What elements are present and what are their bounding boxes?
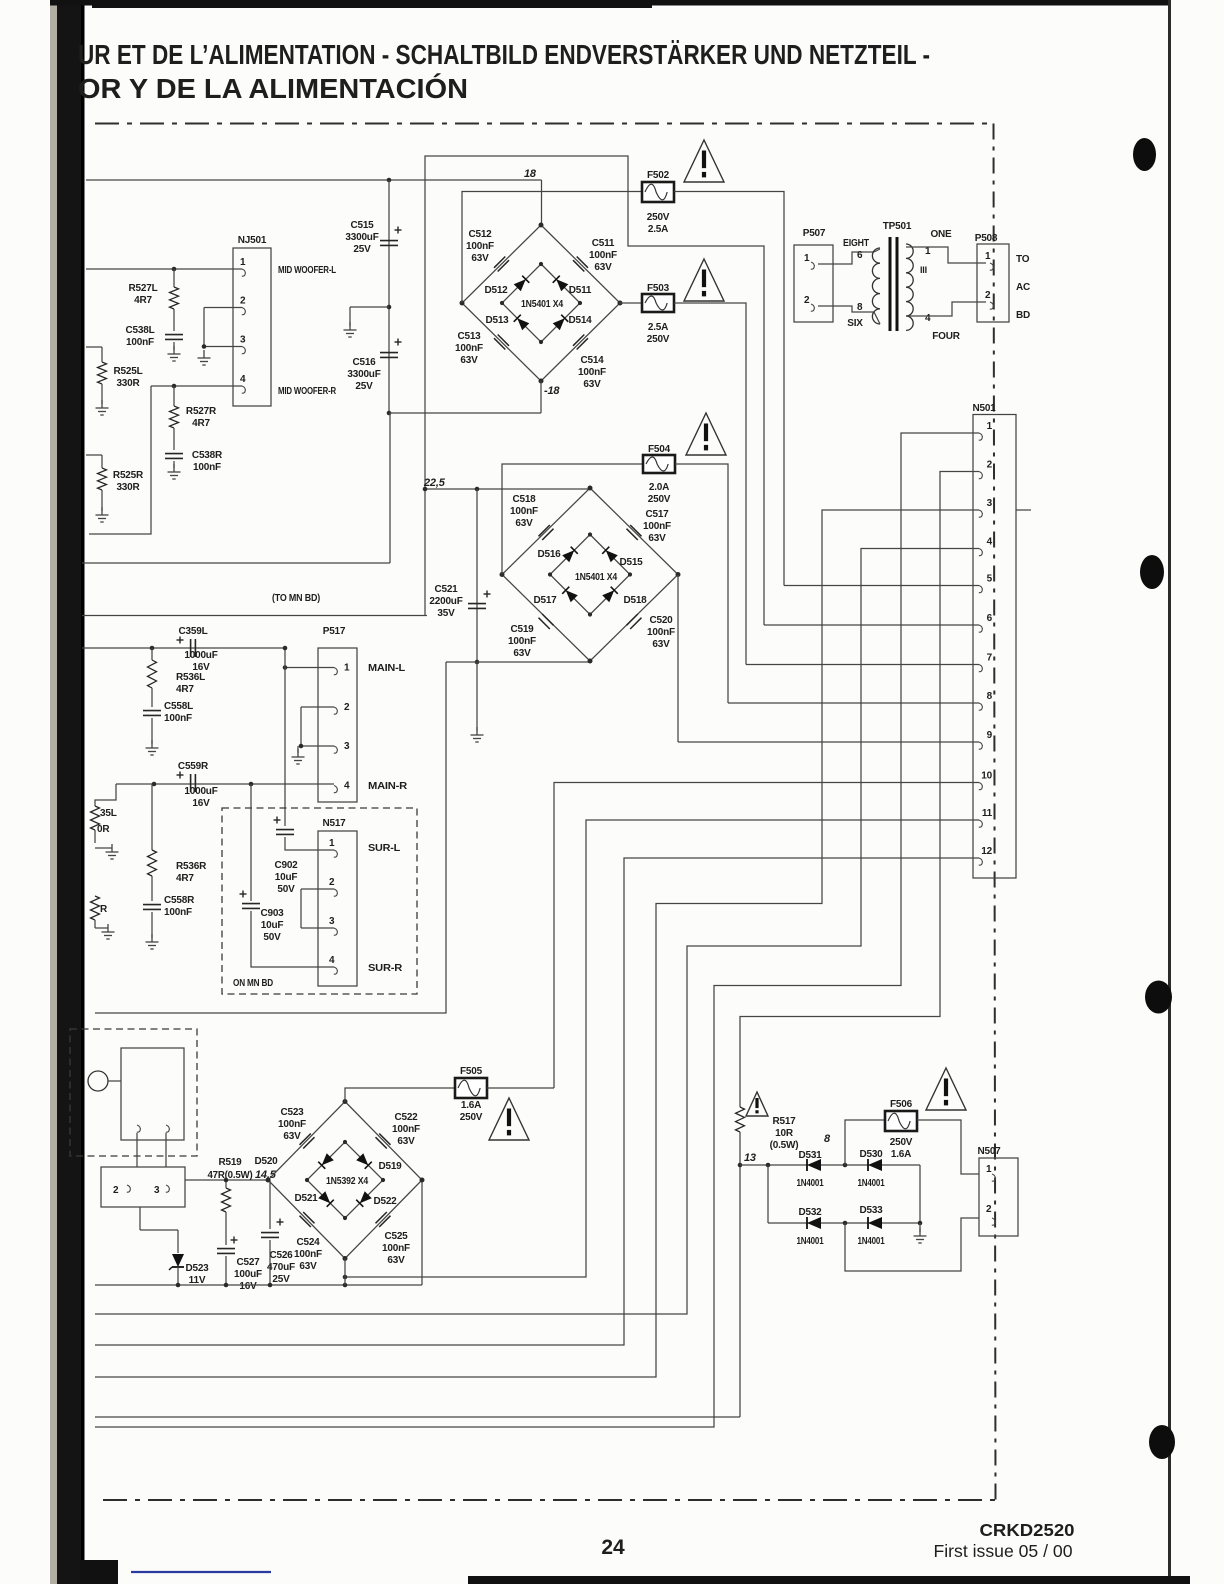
svg-text:2: 2 [113, 1185, 119, 1196]
wire N501 pin3 right stub [1016, 509, 1031, 511]
svg-text:EIGHT: EIGHT [843, 238, 869, 249]
svg-text:50V: 50V [263, 932, 281, 943]
capacitor C538L [165, 335, 183, 340]
wire C538L bottom lead [173, 342, 175, 350]
svg-text:63V: 63V [283, 1131, 301, 1142]
svg-text:100nF: 100nF [466, 241, 494, 252]
svg-text:100nF: 100nF [392, 1124, 420, 1135]
capacitor C522 [376, 1134, 391, 1149]
wire R525L top lead [101, 347, 103, 362]
wire NJ501 jumper 2-3 [203, 308, 205, 347]
svg-text:D511: D511 [569, 285, 592, 296]
svg-text:1000uF: 1000uF [184, 650, 217, 661]
connector P517 [318, 648, 357, 802]
node R527R tap [172, 384, 177, 389]
resistor R525L [98, 362, 107, 384]
svg-text:100uF: 100uF [234, 1269, 262, 1280]
capacitor C525 [376, 1212, 391, 1227]
resistor R535L [91, 806, 100, 830]
wire N501 pin4 net [95, 549, 973, 1315]
capacitor C517 [627, 525, 642, 540]
capacitor C559R [191, 774, 196, 792]
svg-text:2: 2 [987, 460, 993, 471]
wire R525R top lead [101, 455, 103, 468]
node C903 tap [249, 782, 254, 787]
svg-text:C524: C524 [296, 1237, 320, 1248]
wire connector to bridge3 [185, 1179, 269, 1181]
diode D520 [318, 1153, 334, 1169]
wire P507 pin1 to winding [818, 252, 874, 264]
svg-text:R527L: R527L [128, 283, 157, 294]
svg-text:35V: 35V [437, 608, 455, 619]
node C515/C516 junction [387, 305, 392, 310]
svg-text:8: 8 [857, 302, 863, 313]
svg-text:P507: P507 [803, 228, 826, 239]
svg-text:3300uF: 3300uF [347, 369, 380, 380]
wire N501 pin9 lead [678, 741, 973, 743]
svg-text:D517: D517 [533, 595, 557, 606]
resistor R517 [736, 1107, 745, 1132]
wire diode row upper [740, 1164, 920, 1166]
svg-text:C523: C523 [280, 1107, 304, 1118]
capacitor C903 10uF 50V [242, 904, 260, 909]
wire F506 out to N507 pin1 [917, 1120, 979, 1174]
svg-text:P508: P508 [975, 233, 998, 244]
wire -18 west drop [389, 413, 391, 563]
wire switch pin b drop [165, 1133, 167, 1167]
wire N501 pin12 net [95, 858, 973, 1345]
wire switch pin a drop [136, 1133, 138, 1167]
wire bridge1 left to F502 [462, 192, 642, 304]
capacitor C511 [573, 257, 588, 272]
svg-text:C522: C522 [394, 1112, 418, 1123]
capacitor C558R [143, 905, 161, 910]
svg-text:250V: 250V [648, 494, 671, 505]
pin a of switch [137, 1125, 141, 1132]
svg-text:63V: 63V [583, 379, 601, 390]
svg-text:N507: N507 [977, 1146, 1001, 1157]
svg-text:D531: D531 [798, 1150, 822, 1161]
svg-text:0R: 0R [97, 824, 110, 835]
svg-text:24: 24 [601, 1536, 625, 1559]
svg-text:C558L: C558L [164, 701, 193, 712]
capacitor C519 [539, 614, 554, 629]
node R527L tap [172, 267, 177, 272]
wire R536L top [151, 648, 153, 660]
wire primary top lead [874, 249, 880, 252]
wire C902 to pin1 [285, 837, 334, 850]
svg-text:C558R: C558R [164, 895, 195, 906]
svg-text:25V: 25V [353, 244, 371, 255]
svg-text:R525R: R525R [113, 470, 144, 481]
fuse F506 [885, 1111, 917, 1131]
svg-text:12: 12 [981, 846, 992, 857]
svg-text:3300uF: 3300uF [345, 232, 378, 243]
wire N501 pin5 lead [784, 585, 973, 587]
svg-text:1: 1 [240, 257, 246, 268]
node pin11 junction [343, 1275, 348, 1280]
capacitor C514 [573, 335, 588, 350]
wire P507 pin2 to winding [818, 306, 874, 312]
pin b of switch [166, 1125, 170, 1132]
svg-text:MID WOOFER-R: MID WOOFER-R [278, 386, 337, 397]
svg-text:R527R: R527R [186, 406, 217, 417]
capacitor C902 10uF 50V [276, 830, 294, 835]
wire bridge2 bottom rail [446, 661, 591, 663]
svg-text:100nF: 100nF [508, 636, 536, 647]
wire N517 jumper 2-3 [300, 889, 302, 928]
wire C521 vertical [476, 489, 478, 662]
svg-text:25V: 25V [355, 381, 373, 392]
node 22.5 tap [423, 487, 428, 492]
wire R535L elbow [95, 784, 116, 806]
svg-text:2: 2 [804, 295, 810, 306]
svg-text:13: 13 [744, 1152, 756, 1164]
node R536L tap [150, 646, 155, 651]
svg-text:100nF: 100nF [578, 367, 606, 378]
svg-text:250V: 250V [460, 1112, 483, 1123]
svg-text:CRKD2520: CRKD2520 [980, 1520, 1075, 1540]
svg-text:35L: 35L [100, 808, 117, 819]
wire N501 pin8 lead [728, 702, 973, 704]
wire N501 pin10 net [554, 783, 973, 1089]
wire N501 pin3 net [95, 510, 973, 1377]
svg-text:4: 4 [329, 955, 335, 966]
svg-text:1: 1 [986, 1164, 992, 1175]
svg-text:4: 4 [925, 313, 931, 324]
node D532 branch node [766, 1163, 771, 1168]
diode bridge D519-D522 1N5392 [268, 1102, 422, 1259]
svg-text:D512: D512 [484, 285, 508, 296]
wire R536R top [151, 784, 153, 850]
wire gnd stub [919, 1223, 921, 1232]
wire N507 pin2 return [845, 1218, 979, 1271]
svg-text:250V: 250V [647, 334, 670, 345]
node -18 junction [387, 411, 392, 416]
svg-text:ONE: ONE [930, 229, 952, 240]
diode D531 1N4001 [807, 1159, 821, 1171]
svg-text:63V: 63V [515, 518, 533, 529]
svg-text:1: 1 [987, 421, 993, 432]
svg-text:TO: TO [1016, 254, 1030, 265]
binding hole 1 [1133, 138, 1156, 171]
svg-text:C559R: C559R [178, 761, 209, 772]
svg-text:D521: D521 [294, 1193, 318, 1204]
schematic dash-dot border bottom [103, 1499, 995, 1501]
node lower row node [843, 1221, 848, 1226]
svg-text:330R: 330R [116, 378, 140, 389]
svg-text:D523: D523 [185, 1263, 209, 1274]
resistor R536R [148, 850, 157, 876]
svg-text:FOUR: FOUR [932, 331, 961, 342]
svg-text:100nF: 100nF [126, 337, 154, 348]
svg-text:11V: 11V [189, 1275, 206, 1286]
warning triangle F505 warning [489, 1098, 529, 1140]
node C521 bottom node [475, 660, 480, 665]
wire C359L net [82, 647, 285, 649]
connector connector 2-3 [101, 1167, 185, 1207]
fuse F502 [642, 182, 674, 202]
wire C558L bottom [151, 718, 153, 744]
svg-text:C902: C902 [274, 860, 298, 871]
ground at C521 [471, 727, 484, 742]
svg-text:2.5A: 2.5A [648, 224, 668, 235]
wire 22.5 net [425, 488, 590, 490]
wire motor lead [108, 1080, 121, 1082]
wire upper frame wire [425, 156, 764, 625]
wire R525R stub [86, 454, 102, 456]
svg-text:18: 18 [524, 168, 537, 180]
diode D517 [562, 587, 578, 603]
wire R525L bottom lead [101, 384, 103, 404]
wire bridge1 bottom drop [540, 381, 542, 413]
svg-text:63V: 63V [387, 1255, 405, 1266]
svg-text:ON MN BD: ON MN BD [233, 978, 273, 989]
wire P517 pin1 lead [285, 667, 334, 669]
svg-text:C525: C525 [384, 1231, 408, 1242]
resistor R527L [170, 287, 179, 309]
svg-text:2: 2 [344, 702, 350, 713]
svg-text:3: 3 [240, 335, 246, 346]
svg-text:100nF: 100nF [164, 907, 192, 918]
wire bridge3 bottom drop [344, 1259, 346, 1286]
svg-text:16V: 16V [192, 798, 210, 809]
svg-text:2200uF: 2200uF [429, 596, 462, 607]
wire C526 vertical top [269, 1180, 271, 1229]
svg-text:D520: D520 [254, 1156, 278, 1167]
wire R535R gnd arm [95, 927, 108, 929]
wire R527R to C538R [173, 428, 175, 450]
connector NJ501 [233, 248, 271, 406]
wire ground arm [350, 306, 389, 308]
svg-text:D522: D522 [373, 1196, 397, 1207]
dashed outline ON MN BD [222, 808, 417, 994]
secondary winding [906, 244, 913, 330]
wire C515-C516 vertical [388, 180, 390, 413]
ground at C558L [146, 740, 159, 755]
wire -18 rail west [82, 562, 390, 564]
diode D530 1N4001 [868, 1159, 882, 1171]
resistor R536L [148, 660, 157, 688]
wire pin4 west drop [89, 386, 151, 534]
wire D523 bottom lead [177, 1267, 179, 1285]
diode D512 [514, 276, 530, 292]
svg-text:63V: 63V [594, 262, 612, 273]
wire node13 rail [95, 1416, 740, 1418]
motor M [88, 1071, 108, 1091]
svg-text:2.0A: 2.0A [649, 482, 669, 493]
wire net 18 drop to bridge D511-D512 top [541, 180, 543, 225]
scan left black binding bar [57, 0, 84, 1584]
ground at R525L [96, 400, 109, 415]
svg-text:10: 10 [981, 771, 992, 782]
node R536R tap [152, 782, 157, 787]
svg-text:R519: R519 [218, 1157, 242, 1168]
svg-text:7: 7 [987, 653, 993, 664]
svg-text:1N4001: 1N4001 [797, 1236, 824, 1247]
svg-text:(TO MN BD): (TO MN BD) [272, 593, 320, 604]
svg-text:5: 5 [987, 574, 993, 585]
node P517 pin1 tap [283, 665, 288, 670]
svg-text:SIX: SIX [847, 318, 863, 329]
svg-text:AC: AC [1016, 282, 1030, 293]
svg-text:F505: F505 [460, 1066, 483, 1077]
primary winding [872, 248, 880, 324]
wire NJ501 pin4 net [151, 385, 233, 387]
svg-text:100nF: 100nF [193, 462, 221, 473]
wire upper row corner drop [919, 1165, 921, 1223]
diode bridge D511-D514 1N5401 [462, 225, 620, 381]
node R519 tap [224, 1178, 229, 1183]
svg-text:100nF: 100nF [643, 521, 671, 532]
svg-text:TP501: TP501 [883, 221, 912, 232]
wire C559R net [116, 783, 334, 785]
ground at R535L [106, 844, 119, 859]
svg-text:MAIN-R: MAIN-R [368, 781, 408, 792]
wire N517 pin3 lead [301, 927, 334, 929]
bottom scan black strip [468, 1576, 1190, 1584]
ground at diode matrix [914, 1228, 927, 1243]
svg-text:1: 1 [985, 251, 991, 262]
svg-text:100nF: 100nF [294, 1249, 322, 1260]
wire bridge1 right to F503 [619, 302, 642, 304]
svg-text:250V: 250V [890, 1137, 913, 1148]
wire C521 ground stub [476, 662, 478, 731]
diode bridge D515-D518 1N5401 [502, 488, 678, 661]
ground at R525R [96, 507, 109, 522]
diode D521 [318, 1191, 334, 1207]
binding hole 3 [1145, 981, 1172, 1014]
warning triangle F503 warning [684, 259, 724, 301]
wire R519 top lead [225, 1180, 227, 1188]
wire N501 pin1 net [95, 433, 973, 1427]
wire bridge2 left to F504 [502, 464, 643, 575]
connector P507 [794, 245, 833, 322]
scan left margin speckle strip [50, 0, 59, 1584]
diode D533 1N4001 [868, 1217, 882, 1229]
wire N501 pin6 lead [764, 624, 973, 626]
warning triangle F502 warning [684, 140, 724, 182]
svg-text:First issue 05 / 00: First issue 05 / 00 [934, 1541, 1073, 1561]
svg-text:1: 1 [344, 663, 350, 674]
ground at C538R [168, 464, 181, 479]
svg-text:1: 1 [804, 253, 810, 264]
fuse F503 [642, 294, 674, 312]
capacitor C527 100uF 16V [217, 1249, 235, 1254]
svg-text:470uF: 470uF [267, 1262, 295, 1273]
svg-text:C517: C517 [645, 509, 669, 520]
svg-text:2: 2 [329, 877, 335, 888]
wire R535L gnd arm [95, 847, 112, 849]
svg-text:63V: 63V [471, 253, 489, 264]
svg-text:3: 3 [987, 498, 993, 509]
svg-text:C527: C527 [236, 1257, 260, 1268]
svg-text:C514: C514 [580, 355, 604, 366]
node jumper node [202, 344, 207, 349]
svg-text:100nF: 100nF [589, 250, 617, 261]
svg-text:D516: D516 [537, 549, 561, 560]
wire bridge2 right to pin9 [677, 575, 679, 743]
svg-text:D533: D533 [859, 1205, 883, 1216]
wire R517 bottom lead [739, 1132, 741, 1165]
node D523 node [176, 1283, 181, 1288]
node C902 top tap [283, 646, 288, 651]
wire P517 pin2 lead [301, 706, 334, 708]
node F506 branch node [843, 1163, 848, 1168]
resistor R525R [98, 468, 107, 490]
capacitor C516 3300uF 25V [380, 353, 398, 358]
svg-text:MID WOOFER-L: MID WOOFER-L [278, 265, 336, 276]
wire C527 bottom [225, 1256, 227, 1285]
svg-text:R517: R517 [772, 1116, 796, 1127]
svg-text:9: 9 [987, 730, 993, 741]
capacitor C515 3300uF 25V [380, 241, 398, 246]
capacitor C538R [165, 454, 183, 459]
node C515 tap [387, 178, 392, 183]
svg-text:100nF: 100nF [164, 713, 192, 724]
svg-text:D532: D532 [798, 1207, 822, 1218]
svg-text:MAIN-L: MAIN-L [368, 663, 405, 674]
svg-text:100nF: 100nF [382, 1243, 410, 1254]
wire to-mn-bd rail [82, 615, 427, 617]
svg-text:4R7: 4R7 [134, 295, 152, 306]
wire P517 jumper 2-3 [300, 707, 302, 746]
node P517 jumper node [299, 744, 304, 749]
svg-text:4R7: 4R7 [176, 684, 194, 695]
wire R535L lead [94, 830, 96, 843]
svg-text:C518: C518 [512, 494, 536, 505]
blue pen line bottom left [131, 1571, 271, 1573]
svg-text:III: III [920, 265, 927, 275]
wire R525L stub [86, 346, 102, 348]
warning triangle F504 warning [686, 413, 726, 455]
svg-text:C538L: C538L [125, 325, 154, 336]
capacitor C359L [191, 639, 196, 657]
capacitor C513 [494, 335, 509, 350]
warning triangle R517 warning [746, 1092, 768, 1116]
dashed outline motor unit [70, 1029, 197, 1156]
node node 13 [738, 1163, 743, 1168]
svg-text:C521: C521 [434, 584, 458, 595]
svg-text:F506: F506 [890, 1099, 913, 1110]
wire NJ501 pin1 net [86, 268, 233, 270]
warning triangle F506 warning [926, 1068, 966, 1110]
svg-text:100nF: 100nF [647, 627, 675, 638]
svg-text:2.5A: 2.5A [648, 322, 668, 333]
svg-text:2: 2 [986, 1204, 992, 1215]
svg-text:47R(0.5W): 47R(0.5W) [208, 1170, 253, 1181]
svg-text:3: 3 [329, 916, 335, 927]
node bridge3 node [343, 1283, 348, 1288]
wire C903 vertical [250, 784, 252, 901]
svg-text:2: 2 [985, 290, 991, 301]
diode D515 [602, 547, 618, 563]
diode D511 [553, 276, 569, 292]
svg-text:11: 11 [982, 808, 993, 819]
svg-text:100nF: 100nF [278, 1119, 306, 1130]
svg-text:1: 1 [925, 246, 931, 257]
wire R527R top lead [173, 386, 175, 406]
diode D518 [602, 587, 618, 603]
connector N507 [979, 1158, 1018, 1236]
fuse F505 [455, 1078, 487, 1098]
wire NJ501 pin3 lead [204, 346, 233, 348]
svg-text:63V: 63V [397, 1136, 415, 1147]
wire C902 vertical [284, 648, 286, 826]
ground at R535R [102, 924, 115, 939]
wire bottom rail west [95, 662, 446, 1013]
svg-text:C519: C519 [510, 624, 534, 635]
